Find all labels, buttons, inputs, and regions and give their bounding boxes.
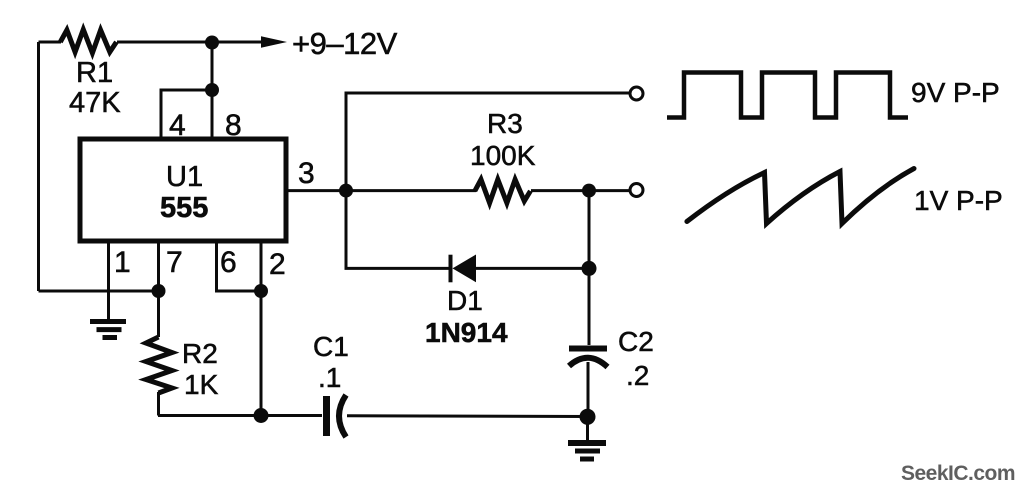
node pin 7 junction	[152, 284, 166, 298]
capacitor C1	[323, 396, 330, 436]
wire diode row left	[346, 191, 449, 269]
svg-text:SeekIC.com: SeekIC.com	[901, 462, 1015, 485]
svg-text:R1: R1	[76, 57, 113, 89]
node diode cathode junction	[582, 261, 597, 276]
wire junction down	[211, 42, 214, 90]
svg-text:R3: R3	[487, 108, 523, 139]
svg-text:9V P-P: 9V P-P	[911, 77, 1000, 108]
wire pin 7 stub	[157, 241, 160, 291]
op-amp U1 555 timer box	[80, 139, 286, 241]
wire output up and to square terminal	[346, 93, 629, 191]
diode D1	[449, 255, 453, 283]
wire junction down right side	[588, 191, 591, 269]
resistor R3	[346, 189, 476, 192]
ground under C2	[586, 417, 589, 441]
svg-text:100K: 100K	[470, 140, 536, 171]
svg-text:1: 1	[114, 246, 131, 279]
svg-text:1V P-P: 1V P-P	[914, 185, 1003, 216]
wire pin 6 stub	[217, 241, 262, 291]
svg-text:555: 555	[160, 192, 208, 224]
terminal triangle-wave output	[630, 184, 643, 197]
svg-text:47K: 47K	[69, 87, 121, 119]
svg-text:3: 3	[298, 157, 315, 190]
wire pin 3 output	[286, 189, 346, 192]
wire left vertical (R1 feedback to bottom rail)	[37, 42, 40, 291]
node pin2 bottom junction	[254, 408, 269, 423]
node R3 right junction	[582, 184, 596, 198]
svg-text:C1: C1	[313, 331, 349, 362]
wire top rail to junction	[117, 41, 212, 44]
wire pin 1 stub	[107, 241, 110, 320]
svg-text:.2: .2	[626, 360, 649, 391]
resistor R2	[157, 291, 160, 337]
svg-text:D1: D1	[447, 285, 483, 316]
svg-text:U1: U1	[166, 161, 203, 193]
node bottom right junction	[580, 409, 596, 425]
wire bottom rail left of C1	[158, 414, 322, 417]
terminal square-wave output	[630, 87, 643, 100]
svg-text:7: 7	[166, 246, 183, 279]
svg-text:2: 2	[269, 248, 286, 281]
wire left rail to pin 7	[39, 290, 159, 293]
wire bottom rail right of C1	[347, 414, 588, 418]
node output junction	[339, 184, 353, 198]
wire pin 8 stub	[211, 90, 214, 139]
power arrow +9-12V	[212, 41, 262, 44]
svg-text:+9–12V: +9–12V	[292, 26, 398, 61]
svg-text:R2: R2	[182, 338, 218, 369]
wire top rail left segment	[39, 41, 62, 44]
ground pin 1	[90, 319, 126, 324]
resistor R1	[60, 30, 116, 54]
capacitor C2	[588, 268, 591, 345]
wire pin 4 stub	[161, 90, 212, 139]
wire R3 junction to triangle terminal	[589, 189, 630, 192]
svg-text:1N914: 1N914	[425, 317, 508, 348]
svg-text:.1: .1	[318, 362, 341, 393]
node V+ junction	[205, 36, 219, 50]
wire pin 2 stub down to bottom rail	[260, 241, 263, 416]
svg-text:1K: 1K	[184, 369, 219, 400]
node pin 6-2 junction	[254, 284, 268, 298]
svg-text:6: 6	[220, 246, 237, 279]
waveform sawtooth	[687, 169, 914, 224]
waveform square wave	[667, 73, 908, 118]
svg-text:C2: C2	[618, 326, 654, 357]
node pins 4-8 tie junction	[205, 83, 219, 97]
